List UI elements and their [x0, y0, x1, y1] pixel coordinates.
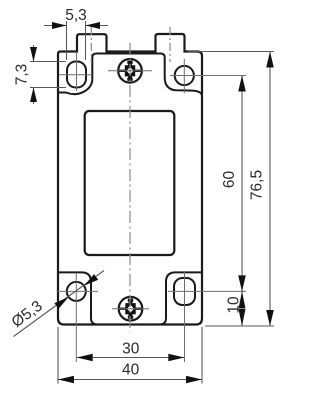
hole bottom-left	[67, 282, 86, 301]
svg-text:7,3: 7,3	[14, 64, 31, 86]
svg-text:60: 60	[221, 171, 238, 189]
svg-text:10: 10	[226, 296, 243, 314]
main vertical centerline	[129, 43, 131, 332]
svg-text:5,3: 5,3	[65, 7, 87, 24]
dimension 30 bottom	[77, 357, 185, 359]
slotted hole bottom-right	[174, 278, 195, 305]
boss bottom-right	[160, 272, 203, 324]
tab right centerline	[169, 27, 171, 62]
dimension 76,5 right	[188, 52, 274, 327]
crosshair screw top	[108, 70, 152, 72]
dimension 5,3 top	[44, 21, 108, 60]
crosshair hole bottom-left (vertical doubles as 30-dim extension)	[57, 273, 99, 362]
crosshair screw bottom	[112, 308, 149, 310]
inner rectangle panel	[85, 111, 175, 255]
head plate contour	[58, 54, 202, 97]
svg-text:76,5: 76,5	[249, 170, 266, 200]
leader and label diameter 5,3	[14, 271, 105, 337]
hole top-right	[175, 66, 194, 85]
body outline	[58, 34, 202, 325]
boss bottom-left	[58, 272, 98, 324]
screw top	[118, 59, 142, 83]
dimension 10 right	[241, 291, 243, 326]
screw bottom	[119, 297, 143, 321]
svg-text:40: 40	[122, 362, 140, 379]
slotted hole top-left	[67, 62, 86, 88]
crosshair slotted hole top-left	[59, 52, 92, 92]
tab left centerline	[90, 27, 92, 62]
dimension 7,3 left	[30, 45, 66, 104]
crosshair slotted hole bottom-right (extended for 30/60 dims)	[168, 272, 246, 362]
dimension 40 bottom	[58, 327, 202, 384]
dimension 60 right	[241, 76, 243, 292]
svg-text:30: 30	[122, 341, 140, 358]
crosshair hole top-right (horizontal doubles as 60-dim extension)	[170, 59, 246, 93]
